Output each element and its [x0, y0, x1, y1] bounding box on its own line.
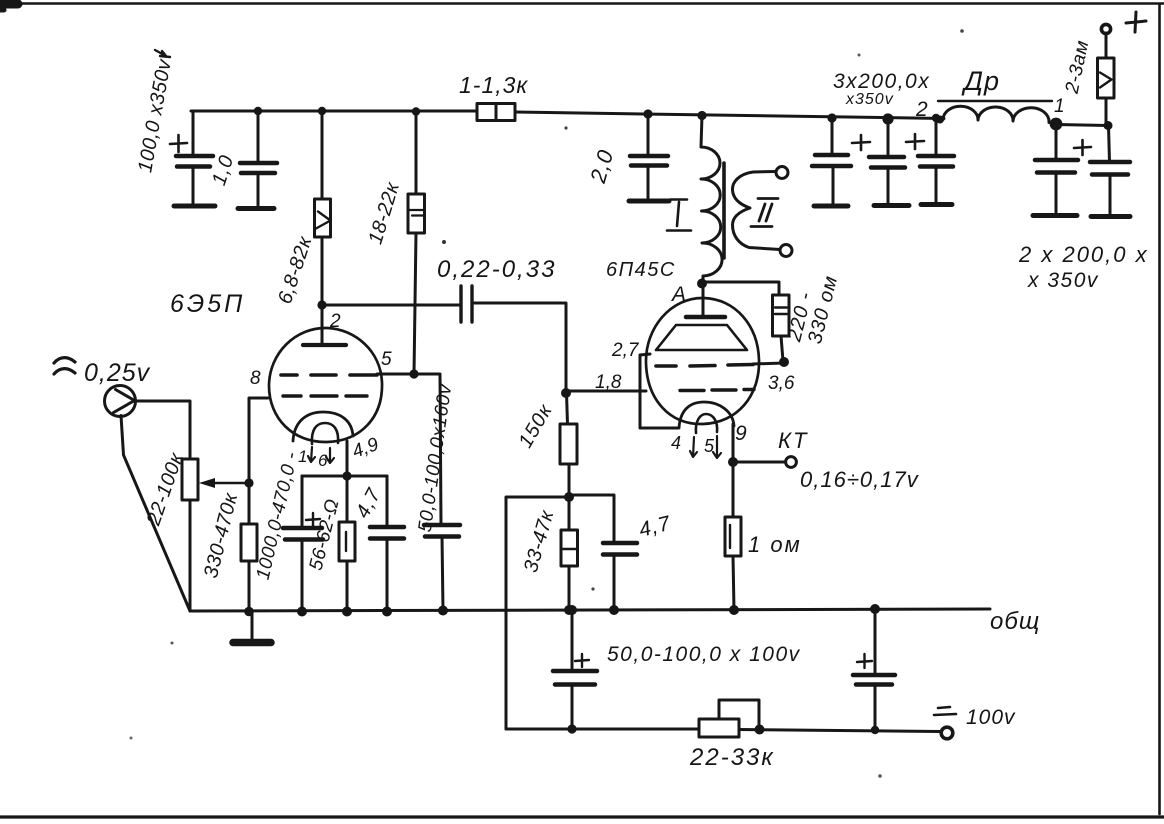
- wire ground bus: [190, 609, 990, 611]
- junction choke output: [1050, 118, 1063, 131]
- resistor 22-33k body: [699, 719, 739, 737]
- resistor 18-22k lead bottom: [414, 233, 416, 374]
- resistor 33-47k inner line: [561, 548, 578, 550]
- transformer core: [722, 163, 726, 258]
- border bottom line: [0, 815, 1164, 818]
- border right line: [1158, 5, 1161, 814]
- resistor 56-62 Ohm body: [339, 522, 355, 561]
- capacitor 0,22-0,33 plates: [461, 286, 472, 322]
- svg-text:5: 5: [381, 349, 392, 370]
- wire B+ rail left segment: [191, 110, 477, 113]
- choke Dr winding: [943, 106, 1049, 122]
- tube V1 anode plate: [303, 343, 346, 347]
- rectifier 2-3a triangle: [1100, 73, 1112, 88]
- filter capacitor 2: [887, 119, 890, 157]
- node V1 cathode junction: [342, 471, 351, 480]
- junction bus 33-47k: [564, 605, 574, 615]
- svg-text:1: 1: [1054, 96, 1065, 117]
- capacitor -100v rail lead top: [874, 609, 877, 672]
- junction bottom wire cap: [567, 724, 576, 733]
- svg-text:4: 4: [671, 433, 681, 453]
- svg-text:3,6: 3,6: [768, 373, 795, 394]
- wire bias node to 4,7 cap: [569, 495, 614, 543]
- resistor 6,8-82k lead bottom: [321, 237, 324, 305]
- wire input to pot top: [135, 401, 190, 459]
- junction screen node: [409, 369, 418, 378]
- potentiometer 22-100k body: [182, 459, 198, 500]
- capacitor 50,0-100,0x100v lead top: [571, 610, 574, 668]
- svg-text:0,25v: 0,25v: [84, 359, 151, 387]
- filter capacitor 3: [935, 118, 938, 156]
- stray pen mark top: [155, 50, 170, 57]
- border top line: [0, 2, 1164, 5]
- tube V1 6E5P envelope: [269, 328, 382, 442]
- capacitor 4,7 (bias) plates: [603, 543, 637, 555]
- resistor 330-470k body: [241, 524, 257, 561]
- junction rail / 1,0: [254, 107, 262, 115]
- tube V2 cathode dome: [679, 402, 734, 428]
- junction bus 1 Ohm: [729, 605, 739, 615]
- wire V1 screen to decoupling: [377, 374, 441, 525]
- junction bus 1000,0: [297, 607, 307, 617]
- junction rail 2,0: [643, 109, 652, 118]
- svg-text:100v: 100v: [966, 706, 1016, 729]
- reservoir capacitor A lead: [1055, 124, 1058, 160]
- resistor 1 Ohm lead top: [732, 462, 735, 517]
- input transducer needle: [114, 390, 135, 413]
- tube V1 screen grid dashes: [281, 373, 377, 377]
- resistor 220-330 Ohm body: [773, 295, 790, 336]
- capacitor 50,0-100,0x100v plus: [575, 654, 589, 667]
- svg-text:общ: общ: [990, 608, 1040, 635]
- node V2 cathode junction: [728, 457, 738, 467]
- node anode V1 junction: [317, 300, 326, 309]
- tube V2 cathode lead: [732, 424, 735, 462]
- junction rail filter cap 1: [827, 113, 836, 122]
- junction bus 4,7 bias: [609, 605, 619, 615]
- resistor 33-47k lead bottom: [568, 566, 571, 610]
- terminal KT circle: [786, 457, 797, 468]
- svg-text:1,8: 1,8: [595, 372, 622, 393]
- svg-text:1-1,3к: 1-1,3к: [459, 72, 528, 98]
- wire anode V1 to coupling cap: [322, 304, 461, 307]
- reservoir capacitor A plates: [1035, 160, 1078, 173]
- svg-text:2: 2: [915, 98, 928, 121]
- resistor 1-1,3k divider: [495, 104, 498, 121]
- tube V2 screen grid dashes: [656, 365, 753, 367]
- rectifier 2-3a lead top: [1105, 33, 1108, 58]
- tube V2 control grid dashes: [680, 390, 754, 391]
- junction bus 56-62: [342, 607, 352, 617]
- svg-text:2 х 200,0 х: 2 х 200,0 х: [1018, 242, 1149, 267]
- capacitor 100,0 lead top: [192, 111, 195, 156]
- resistor 1 Ohm body: [725, 517, 741, 556]
- resistor 18-22k body: [408, 194, 425, 233]
- junction V2 screen: [779, 357, 789, 367]
- capacitor 1000,0-470,0 lead top: [301, 476, 304, 528]
- junction rail filter cap 3: [932, 114, 940, 122]
- wire grid node to V2 grid: [566, 390, 646, 393]
- tube V2 heater hook: [696, 414, 717, 433]
- label winding II: [751, 199, 778, 227]
- svg-text:0,16÷0,17v: 0,16÷0,17v: [800, 467, 920, 492]
- svg-text:х350v: х350v: [845, 91, 894, 108]
- capacitor 4,7 (cathode) plates: [370, 527, 404, 539]
- capacitor 1,0 lead bottom: [257, 173, 260, 207]
- wire coupling cap to grid node V2: [472, 303, 566, 393]
- resistor 330-470k lead bottom: [248, 561, 251, 612]
- capacitor 4,7 (bias) lead bottom: [613, 554, 616, 610]
- resistor 33-47k lead top: [568, 497, 571, 530]
- capacitor 2,0 plates: [630, 156, 668, 166]
- terminal secondary top: [776, 167, 788, 179]
- junction hump: [755, 725, 765, 735]
- resistor 22-33k shorting hump: [719, 700, 759, 729]
- tube V1 control grid dashes: [283, 394, 367, 397]
- filter capacitor 1: [831, 118, 834, 155]
- resistor 56-62 Ohm lead top: [346, 476, 349, 522]
- resistor 56-62 Ohm lead bottom: [346, 561, 349, 611]
- tube V1 cathode lead: [346, 441, 349, 476]
- resistor 150k lead top: [567, 393, 568, 424]
- resistor 1-1,3k body: [477, 104, 515, 121]
- capacitor 1000,0-470,0 plates: [283, 528, 323, 540]
- junction pot wiper / grid: [244, 478, 253, 487]
- node grid V2 junction: [561, 388, 571, 398]
- svg-text:0,22-0,33: 0,22-0,33: [437, 256, 556, 283]
- tube V1 heater arrows pins 1,6: [308, 447, 315, 462]
- resistor 18-22k inner lines: [408, 210, 425, 216]
- node bias junction: [564, 492, 574, 502]
- tube V2 heater arrows pins 4,5: [690, 437, 697, 457]
- label winding I: [667, 200, 691, 231]
- ground stub: [251, 612, 254, 639]
- terminal plus supply: [1101, 24, 1110, 33]
- junction bottom wire right cap: [871, 726, 879, 734]
- reservoir capacitor B plates: [1090, 162, 1130, 175]
- junction rail / 6,8-82k: [318, 107, 326, 115]
- svg-text:2,7: 2,7: [611, 340, 640, 361]
- svg-text:3х200,0х: 3х200,0х: [833, 70, 930, 93]
- resistor 1 Ohm inner mark: [729, 525, 731, 548]
- wire bias node to left drop: [506, 497, 569, 729]
- wire choke to rectifier: [1056, 125, 1108, 126]
- capacitor 100,0 plates: [176, 154, 213, 159]
- potentiometer lead bottom: [189, 500, 192, 611]
- capacitor -100v plates: [853, 675, 895, 685]
- rectifier 2-3a body: [1098, 58, 1115, 98]
- capacitor 1000,0-470,0 lead bottom: [301, 539, 304, 611]
- tube V2 anode plate: [686, 315, 725, 320]
- label input 0,25v: [54, 358, 75, 374]
- wire input return diagonal: [121, 416, 190, 612]
- capacitor 4,7 (cathode) lead top: [386, 476, 389, 527]
- resistor 6,8-82k lead top: [321, 111, 324, 199]
- wire B+ rail right segment: [515, 112, 944, 119]
- wire screen resistor to screen grid: [753, 363, 784, 364]
- capacitor 50,0-100,0x160v plates: [424, 525, 460, 537]
- capacitor 2,0 lead bottom: [647, 165, 650, 201]
- capacitor 50,0-100,0x100v lead bottom: [571, 684, 574, 729]
- junction bus 50-100x100v cap: [567, 605, 577, 615]
- resistor 56-62 Ohm inner mark: [345, 532, 347, 551]
- junction bus right cap: [870, 604, 880, 614]
- transformer secondary winding: [732, 172, 780, 250]
- capacitor 50,0-100,0x100v plates: [553, 671, 597, 685]
- svg-text:6: 6: [318, 451, 328, 470]
- capacitor 50,0-100,0x160v lead bottom: [442, 536, 443, 610]
- filter capacitor 3 plus: [906, 134, 924, 149]
- svg-text:1 ом: 1 ом: [748, 532, 802, 557]
- resistor 150k body: [560, 424, 577, 464]
- junction bus 330-470k: [244, 607, 254, 617]
- capacitor 1,0 plates: [240, 161, 277, 166]
- wire bias bottom run: [506, 728, 699, 731]
- rectifier 2-3a lead bottom: [1105, 98, 1108, 125]
- capacitor 1000,0-470,0 plus: [306, 513, 320, 526]
- tube V2 beam plates: [656, 325, 747, 350]
- svg-text:9: 9: [735, 422, 747, 445]
- node V2 anode junction: [697, 279, 707, 289]
- junction rail transformer: [697, 111, 706, 120]
- svg-text:А: А: [670, 283, 686, 306]
- wire beam plate bracket: [640, 354, 678, 428]
- wire cathode node horizontal: [302, 475, 387, 478]
- tube V2 anode lead: [702, 284, 705, 317]
- resistor 220-330 Ohm inner lines: [775, 308, 787, 315]
- ground bar: [233, 639, 271, 647]
- scan specks: [442, 240, 446, 244]
- svg-text:6Э5П: 6Э5П: [170, 290, 245, 318]
- resistor 150k lead bottom: [568, 464, 571, 497]
- resistor 6,8-82k V mark: [316, 212, 331, 229]
- terminal secondary bottom: [780, 245, 792, 257]
- wire cathode to KT terminal: [733, 461, 785, 464]
- tube V2 6P45S envelope: [646, 298, 759, 424]
- plus sign supply: [1126, 12, 1146, 32]
- svg-text:2: 2: [329, 311, 341, 332]
- capacitor 100,0 chassis bar: [174, 204, 215, 209]
- svg-text:6П45С: 6П45С: [606, 259, 676, 281]
- svg-text:х 350v: х 350v: [1027, 269, 1099, 292]
- capacitor 2,0 lead top: [647, 114, 650, 156]
- terminal -100v circle: [941, 727, 953, 739]
- resistor 18-22k lead top: [415, 112, 418, 195]
- svg-text:22-33к: 22-33к: [689, 744, 775, 771]
- wire V1 grid to pot wiper: [249, 398, 268, 483]
- minus sign -100v: [934, 707, 956, 715]
- capacitor -100v lead bottom: [874, 684, 877, 730]
- tube V1 anode lead: [321, 305, 324, 345]
- capacitor 4,7 (cathode) lead bottom: [386, 538, 389, 611]
- tube V1 cathode dome: [293, 412, 353, 441]
- svg-text:50,0-100,0 х 100v: 50,0-100,0 х 100v: [607, 643, 801, 666]
- reservoir capacitor B lead: [1109, 126, 1110, 163]
- potentiometer wiper arrow: [213, 482, 249, 485]
- transformer primary winding: [701, 116, 722, 282]
- capacitor 100,0 lead bottom: [192, 166, 195, 203]
- svg-text:Др: Др: [961, 66, 1000, 96]
- capacitor 100,0 plus sign: [170, 135, 187, 152]
- capacitor -100v plus: [857, 654, 872, 668]
- svg-text:8: 8: [250, 368, 261, 389]
- tube V1 heater hook: [312, 423, 338, 444]
- wire anode to screen resistor: [703, 282, 779, 295]
- input transducer circle: [105, 386, 136, 417]
- capacitor 1,0 chassis bar: [238, 206, 274, 211]
- filter capacitor 2 plus: [852, 135, 870, 150]
- reservoir capacitor B plus: [1074, 140, 1091, 155]
- wire 22-33k to -100v terminal: [739, 730, 940, 732]
- capacitor 1,0 lead top: [257, 111, 260, 163]
- junction rail filter cap 2: [882, 113, 893, 124]
- svg-text:5: 5: [704, 436, 715, 456]
- resistor 1 Ohm lead bottom: [733, 556, 734, 610]
- junction bus 50-100x160: [438, 606, 448, 616]
- svg-text:КТ: КТ: [778, 428, 808, 453]
- junction bus 4,7: [382, 607, 392, 617]
- resistor 220-330 Ohm lead bottom: [781, 336, 783, 361]
- resistor 330-470k lead top: [248, 483, 251, 524]
- border top-left corner blob: [0, 0, 18, 9]
- capacitor 2,0 chassis bar: [629, 199, 669, 204]
- resistor 33-47k body: [561, 530, 578, 566]
- border left small mark: [0, 8, 4, 13]
- junction rail / 18-22k: [412, 107, 420, 115]
- resistor 6,8-82k body: [315, 199, 331, 237]
